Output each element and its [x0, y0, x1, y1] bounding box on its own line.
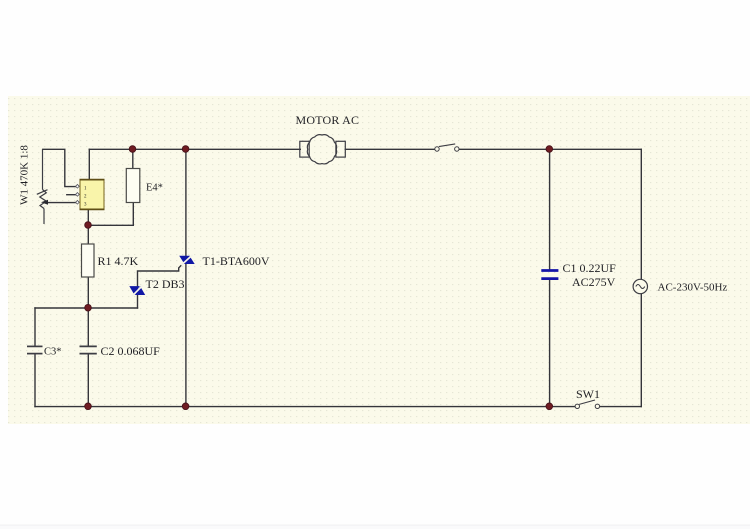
junction at mid rail [85, 304, 92, 311]
svg-text:C1 0.22UF: C1 0.22UF [563, 261, 617, 275]
diac T2 lower triangle [135, 286, 145, 295]
thermal switch right contact [455, 147, 459, 151]
connector J1 (yellow box) [80, 180, 105, 210]
switch SW1 left contact [575, 404, 579, 408]
svg-text:MOTOR AC: MOTOR AC [296, 113, 360, 127]
schematic sheet background [8, 96, 750, 424]
thermal switch on top rail: left contact [435, 147, 439, 151]
junction below connector [85, 222, 92, 229]
wire: connector pin 2 stub [67, 194, 76, 196]
AC source sine [636, 285, 645, 289]
svg-text:AC275V: AC275V [572, 275, 616, 289]
svg-text:T2 DB3: T2 DB3 [146, 277, 185, 291]
wire: C2 branch [87, 308, 89, 407]
diac T2 upper triangle [129, 286, 139, 295]
junction at C1 bottom [546, 403, 553, 410]
triac T1 white slash [181, 255, 192, 265]
svg-text:E4*: E4* [146, 183, 163, 194]
junction at E4 top [129, 146, 136, 153]
wire: wiper to connector pin 3 [47, 202, 76, 204]
wire: T1 gate to T2 top [138, 264, 183, 287]
svg-text:C3*: C3* [44, 347, 62, 358]
wire: T2 bottom lead [137, 295, 139, 308]
wire: top rail from connector drop to right rail [89, 148, 641, 150]
AC source circle [633, 279, 647, 293]
capacitor C1 plates (blue) [541, 271, 558, 279]
wire: mid rail [35, 307, 138, 309]
svg-text:R1 4.7K: R1 4.7K [98, 254, 139, 268]
motor M1 scalloped body [307, 135, 336, 164]
junction at T1 bottom [182, 403, 189, 410]
connector pin 1 [76, 185, 80, 189]
switch SW1 lever [579, 400, 595, 404]
wire: E4 branch top [132, 149, 134, 169]
junction at C2 bottom [85, 403, 92, 410]
wiper arrow of W1 [41, 200, 48, 205]
connector pin 3 [76, 201, 80, 205]
junction at T1 top [182, 146, 189, 153]
svg-text:SW1: SW1 [576, 387, 600, 401]
switch SW1 right contact [595, 404, 599, 408]
faint page divider near bottom [0, 525, 750, 526]
resistor R1 [82, 244, 95, 277]
motor right brush [336, 141, 345, 157]
wire: C1 branch [549, 149, 551, 406]
motor left brush [300, 141, 309, 157]
wire: R1 bottom to mid rail [87, 277, 89, 308]
svg-text:AC-230V-50Hz: AC-230V-50Hz [658, 282, 728, 294]
svg-text:T1-BTA600V: T1-BTA600V [203, 254, 270, 268]
thermal switch lever [439, 144, 455, 147]
wire: right rail [640, 149, 642, 406]
resistor E4 [126, 169, 140, 203]
capacitor C2 plates [80, 346, 97, 353]
wire: C3 branch [34, 308, 36, 407]
triac T1 upper triangle [179, 256, 190, 264]
svg-text:C2 0.068UF: C2 0.068UF [101, 344, 161, 358]
wire: connector bottom lead [87, 210, 89, 226]
wire: T1 vertical branch [185, 149, 187, 406]
wire: junction to R1 top [87, 225, 89, 244]
diac T2 white slash [132, 285, 143, 296]
capacitor C3 plates [27, 346, 43, 353]
triac T1 lower triangle [184, 256, 195, 264]
wire: drop from top rail into connector top [88, 149, 90, 180]
wire: pot top segment to connector pin 1 [43, 149, 76, 186]
connector pin 2 [76, 193, 80, 197]
wire: bottom rail [35, 406, 641, 408]
wire: E4 bottom to junction row [88, 203, 133, 226]
svg-text:W1 470K 1:8: W1 470K 1:8 [19, 145, 31, 205]
potentiometer W1 body (zigzag with slash) [37, 149, 48, 224]
junction at C1 top [546, 146, 553, 153]
